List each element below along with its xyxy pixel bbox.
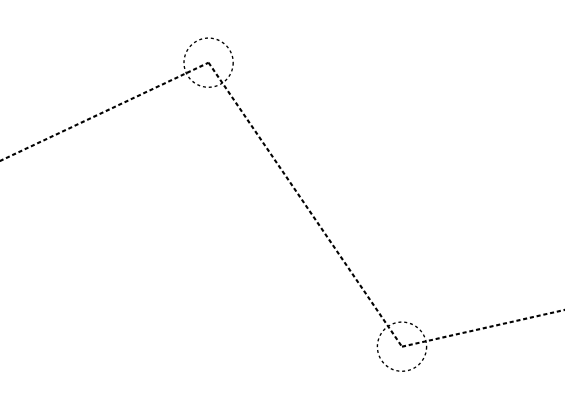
wire: left segment xyxy=(0,63,209,164)
wire: right segment xyxy=(402,309,565,347)
node circle 2 xyxy=(377,322,426,371)
node circle 1 xyxy=(184,38,233,87)
wire: middle segment xyxy=(209,63,402,347)
